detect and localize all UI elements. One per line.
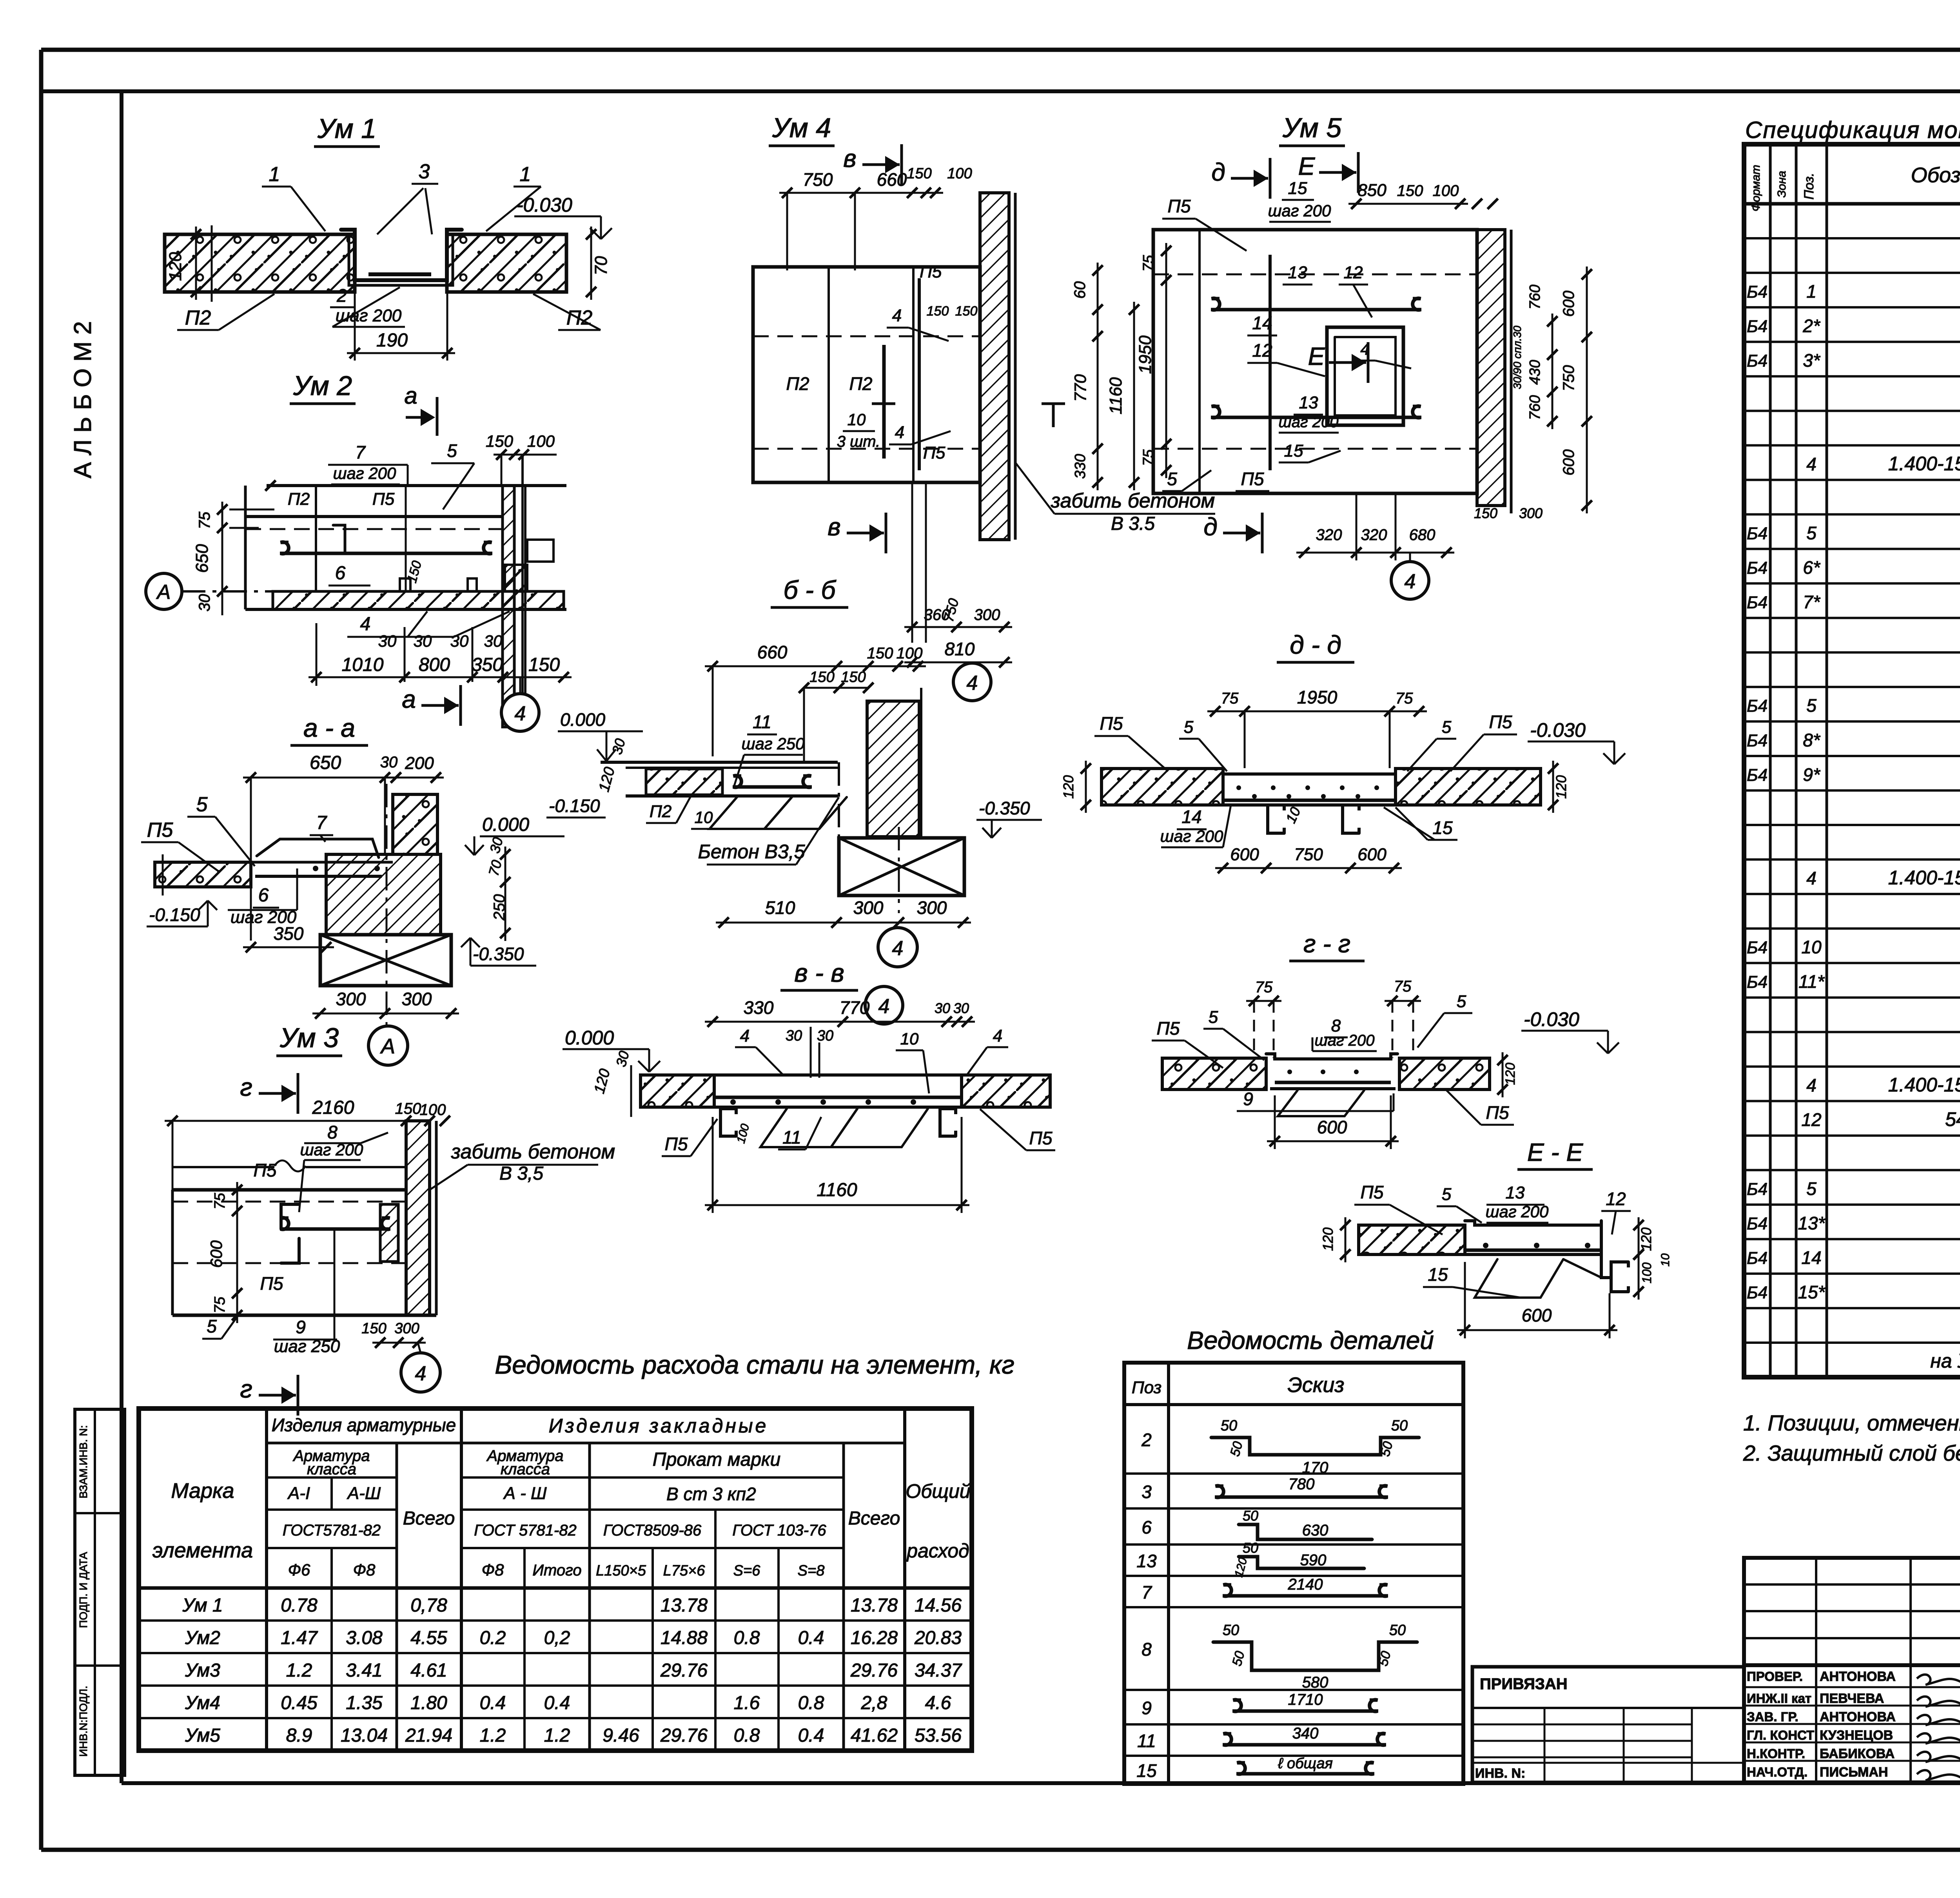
svg-text:30: 30	[935, 1000, 950, 1016]
svg-text:320: 320	[1316, 526, 1342, 544]
svg-text:Ум 3: Ум 3	[279, 1022, 339, 1053]
svg-text:430: 430	[1527, 360, 1543, 384]
svg-text:14: 14	[1801, 1247, 1821, 1268]
svg-text:0.8: 0.8	[798, 1693, 824, 1713]
svg-text:ГОСТ 103-76: ГОСТ 103-76	[732, 1522, 826, 1539]
svg-text:0.000: 0.000	[565, 1027, 614, 1049]
Um3 break squiggle top	[274, 1160, 306, 1171]
svg-text:П2: П2	[849, 373, 873, 394]
svg-text:4: 4	[1360, 340, 1369, 358]
svg-text:0.4: 0.4	[480, 1693, 506, 1713]
sketch poz2 channel 170	[1211, 1438, 1419, 1455]
Um3 section mark g top	[259, 1092, 296, 1095]
svg-text:4: 4	[1806, 454, 1817, 474]
svg-text:200: 200	[405, 754, 434, 773]
svg-text:Ум 4: Ум 4	[772, 112, 831, 143]
svg-text:30: 30	[786, 1028, 802, 1044]
svg-text:1: 1	[269, 163, 280, 186]
svg-text:4.6: 4.6	[925, 1693, 951, 1713]
Um4 bottom dims	[911, 482, 913, 643]
svg-text:150: 150	[1397, 182, 1423, 199]
svg-text:Изделия закладные: Изделия закладные	[549, 1415, 769, 1437]
svg-text:75: 75	[212, 1296, 228, 1313]
v-v circled 4	[865, 986, 903, 1024]
svg-text:П5: П5	[1157, 1018, 1180, 1039]
svg-text:300: 300	[394, 1320, 419, 1337]
Um5 circled 4	[1391, 562, 1429, 599]
svg-text:75: 75	[212, 1193, 228, 1209]
svg-text:Ум 1: Ум 1	[317, 113, 376, 144]
svg-text:1950: 1950	[1136, 335, 1155, 374]
svg-text:150: 150	[867, 645, 893, 662]
svg-text:класса: класса	[501, 1461, 550, 1478]
svg-text:2,8: 2,8	[861, 1693, 887, 1713]
Um5 right dims	[1552, 314, 1553, 429]
svg-text:А - Ш: А - Ш	[503, 1484, 547, 1503]
Um5 bottom dims	[1356, 493, 1357, 560]
svg-text:750: 750	[1294, 845, 1323, 864]
svg-text:14: 14	[1181, 807, 1201, 827]
svg-text:П2: П2	[185, 306, 211, 329]
d-d top dims	[1207, 711, 1427, 712]
svg-text:шаг 200: шаг 200	[333, 464, 396, 482]
svg-text:30: 30	[378, 632, 397, 650]
svg-text:190: 190	[376, 330, 408, 351]
svg-text:100: 100	[1640, 1262, 1654, 1283]
Um2 embedded plates	[400, 578, 410, 591]
Um2 slab band	[273, 591, 564, 609]
a-a bottom dims	[312, 1013, 459, 1015]
svg-text:Всего: Всего	[403, 1508, 455, 1529]
svg-text:0,78: 0,78	[410, 1595, 447, 1616]
svg-text:30: 30	[953, 1000, 969, 1016]
svg-text:1.6: 1.6	[734, 1693, 760, 1713]
sketch poz11 bar 340	[1223, 1743, 1386, 1747]
svg-text:Ведомость расхода стали на эле: Ведомость расхода стали на элемент, кг	[495, 1350, 1014, 1379]
svg-text:15*: 15*	[1798, 1282, 1826, 1302]
svg-text:П5: П5	[1486, 1102, 1509, 1123]
svg-text:3: 3	[419, 160, 430, 183]
Um3 inner hatched panel	[380, 1204, 398, 1262]
svg-text:13*: 13*	[1798, 1213, 1826, 1233]
Um1 channel recess	[341, 230, 462, 280]
svg-text:ГОСТ8509-86: ГОСТ8509-86	[603, 1522, 702, 1539]
svg-text:150: 150	[955, 304, 978, 319]
svg-text:600: 600	[1357, 845, 1387, 864]
svg-text:10: 10	[848, 410, 866, 429]
details list table	[1124, 1363, 1463, 1784]
Um2 section mark a bottom	[421, 704, 459, 707]
svg-text:75: 75	[196, 511, 213, 529]
svg-text:Спецификация монолитных участк: Спецификация монолитных участкоб перекры…	[1745, 117, 1960, 143]
svg-text:-0.030: -0.030	[1530, 719, 1586, 741]
svg-text:Ум 5: Ум 5	[1282, 112, 1342, 143]
svg-text:1160: 1160	[817, 1180, 857, 1200]
svg-text:3 шт.: 3 шт.	[837, 433, 880, 450]
svg-text:0.4: 0.4	[544, 1693, 570, 1713]
svg-text:150: 150	[927, 304, 949, 319]
svg-text:Е: Е	[1298, 152, 1316, 180]
svg-text:150: 150	[528, 654, 560, 675]
svg-text:ВЗАМ.ИНВ. N:: ВЗАМ.ИНВ. N:	[77, 1425, 89, 1498]
Um2 left dim chain	[221, 502, 223, 615]
svg-text:4: 4	[895, 423, 904, 442]
svg-text:50: 50	[1223, 1622, 1239, 1639]
svg-text:5: 5	[1806, 1178, 1817, 1199]
svg-text:Ум3: Ум3	[185, 1660, 220, 1681]
svg-text:590: 590	[1300, 1552, 1327, 1569]
svg-text:4: 4	[1806, 868, 1817, 888]
svg-text:11: 11	[1137, 1731, 1156, 1751]
svg-text:14: 14	[1252, 313, 1272, 333]
svg-text:29.76: 29.76	[660, 1660, 708, 1681]
svg-text:30: 30	[450, 632, 469, 650]
svg-text:0.000: 0.000	[482, 814, 529, 835]
svg-text:5: 5	[1184, 718, 1194, 737]
Um2 right bracket	[527, 540, 554, 562]
svg-text:Б4: Б4	[1747, 973, 1768, 992]
svg-text:5: 5	[1457, 992, 1466, 1011]
svg-text:забить бетоном: забить бетоном	[451, 1140, 615, 1163]
svg-text:ИНЖ.II кат: ИНЖ.II кат	[1747, 1691, 1811, 1706]
svg-text:КУЗНЕЦОВ: КУЗНЕЦОВ	[1820, 1728, 1893, 1743]
svg-text:П2: П2	[786, 373, 809, 394]
d-d channels	[1268, 805, 1284, 833]
svg-text:30: 30	[196, 594, 213, 612]
svg-text:Е - Е: Е - Е	[1527, 1138, 1584, 1166]
svg-text:Н.КОНТР.: Н.КОНТР.	[1747, 1746, 1805, 1761]
Um2 circled A and axis	[146, 573, 182, 609]
svg-text:10: 10	[1801, 937, 1822, 957]
svg-text:250: 250	[491, 894, 508, 921]
svg-text:шаг 200: шаг 200	[1268, 201, 1331, 220]
svg-text:330: 330	[744, 997, 774, 1018]
svg-text:12: 12	[1801, 1109, 1821, 1130]
svg-text:760: 760	[1527, 285, 1543, 309]
svg-text:10: 10	[900, 1030, 919, 1048]
svg-text:П5: П5	[923, 443, 946, 462]
svg-text:6*: 6*	[1803, 557, 1821, 578]
svg-text:680: 680	[1409, 526, 1436, 544]
svg-text:шаг 200: шаг 200	[300, 1140, 363, 1159]
svg-text:75: 75	[1140, 255, 1157, 272]
Um2 rebar with hooks	[280, 552, 492, 555]
svg-text:Б4: Б4	[1747, 731, 1768, 750]
Um2 section mark a top	[406, 416, 431, 419]
a-a wall upper concrete	[393, 794, 437, 854]
inner working-area frame	[120, 91, 123, 1783]
Um1 right slab	[447, 234, 566, 292]
svg-text:850: 850	[1357, 181, 1387, 200]
svg-text:Е: Е	[1308, 342, 1325, 370]
Um3 Z-bar	[281, 1204, 299, 1229]
Um1 dims	[195, 227, 197, 300]
Um5 section marks top	[1231, 177, 1268, 180]
svg-text:АНТОНОВА: АНТОНОВА	[1820, 1709, 1896, 1724]
svg-text:шаг 200: шаг 200	[1160, 827, 1223, 845]
svg-text:600: 600	[1317, 1117, 1347, 1137]
svg-text:4: 4	[1806, 1075, 1817, 1095]
svg-text:П5: П5	[372, 489, 395, 509]
svg-text:ГЛ. КОНСТ: ГЛ. КОНСТ	[1747, 1728, 1814, 1742]
Um5 body	[1153, 230, 1477, 493]
svg-text:150: 150	[907, 165, 931, 182]
svg-text:5: 5	[447, 441, 457, 461]
svg-text:ПЕВЧЕВА: ПЕВЧЕВА	[1820, 1691, 1884, 1706]
svg-text:6: 6	[335, 563, 346, 584]
svg-text:12: 12	[1252, 340, 1272, 361]
svg-text:630: 630	[1302, 1522, 1328, 1539]
svg-text:2. Защитный слой бетона - 15 м: 2. Защитный слой бетона - 15 мм.	[1743, 1441, 1960, 1465]
svg-text:75: 75	[1396, 690, 1413, 707]
Um3 left dims	[236, 1182, 238, 1323]
svg-text:1010: 1010	[342, 654, 384, 675]
specification table rows	[1744, 237, 1960, 239]
svg-text:на Ум1 ÷ Ум5: на Ум1 ÷ Ум5	[1930, 1350, 1960, 1372]
svg-text:20.83: 20.83	[914, 1628, 962, 1648]
svg-text:Зона: Зона	[1775, 171, 1788, 198]
svg-text:660: 660	[877, 169, 907, 190]
Um4 panel	[753, 267, 980, 482]
svg-text:100: 100	[1433, 182, 1459, 199]
privyazan block	[1472, 1667, 1744, 1782]
svg-text:L150×5: L150×5	[596, 1563, 646, 1579]
svg-text:9: 9	[1142, 1698, 1152, 1718]
svg-text:П5: П5	[1361, 1182, 1384, 1202]
v-v slab left	[641, 1075, 714, 1107]
g-g hatch streaks	[1278, 1090, 1364, 1116]
Um4 top dims	[779, 192, 943, 194]
svg-text:70: 70	[592, 256, 611, 275]
sketch poz7 bar 2140	[1223, 1594, 1388, 1598]
svg-text:П5: П5	[1241, 469, 1264, 489]
svg-text:1710: 1710	[1288, 1691, 1323, 1708]
Um5 left dims	[1165, 243, 1167, 478]
svg-text:8.9: 8.9	[286, 1725, 312, 1746]
svg-text:760: 760	[1527, 395, 1543, 420]
svg-text:в: в	[843, 144, 856, 172]
svg-text:14.56: 14.56	[915, 1595, 962, 1616]
svg-text:а - а: а - а	[303, 713, 355, 742]
svg-text:0.4: 0.4	[798, 1725, 824, 1746]
svg-text:14.88: 14.88	[661, 1628, 708, 1648]
d-d slab	[1102, 769, 1223, 805]
svg-text:Б4: Б4	[1747, 283, 1768, 302]
svg-text:Всего: Всего	[848, 1508, 900, 1529]
svg-text:г: г	[240, 1375, 252, 1403]
b-b top dims	[705, 665, 926, 667]
Um3 top dims	[165, 1120, 414, 1122]
svg-text:170: 170	[1302, 1459, 1328, 1476]
svg-text:5: 5	[207, 1316, 217, 1336]
svg-text:0.8: 0.8	[734, 1725, 760, 1746]
b-b hatch streak	[710, 797, 792, 829]
v-v channels	[720, 1109, 736, 1136]
b-b circled 4	[878, 928, 917, 967]
Um5 wall strip	[1477, 230, 1505, 506]
Um3 rebar	[280, 1227, 390, 1231]
svg-text:10: 10	[695, 808, 713, 827]
svg-text:б - б: б - б	[784, 575, 837, 604]
svg-text:75: 75	[1394, 978, 1412, 995]
svg-text:4: 4	[892, 306, 902, 325]
svg-text:150: 150	[841, 669, 866, 685]
svg-text:150: 150	[809, 669, 834, 685]
svg-text:4: 4	[740, 1026, 750, 1046]
svg-text:П2: П2	[650, 802, 671, 821]
svg-text:Бетон В3,5: Бетон В3,5	[698, 841, 805, 863]
svg-text:16.28: 16.28	[851, 1628, 898, 1648]
svg-text:350: 350	[472, 654, 503, 675]
svg-text:1.400-15.81. 110-05: 1.400-15.81. 110-05	[1888, 453, 1960, 475]
E-E slab	[1359, 1225, 1465, 1254]
svg-text:11*: 11*	[1798, 972, 1825, 992]
svg-text:75: 75	[1221, 690, 1239, 707]
svg-text:ЗАВ. ГР.: ЗАВ. ГР.	[1747, 1709, 1798, 1724]
Um4 section mark v bottom	[847, 532, 884, 535]
E-E dim 600	[1457, 1329, 1617, 1331]
a-a foundation cross	[320, 935, 451, 986]
svg-text:1950: 1950	[1297, 687, 1338, 707]
Um4 center rebar	[882, 345, 886, 459]
svg-text:50: 50	[1391, 1418, 1408, 1434]
sketch poz8 channel 580	[1213, 1642, 1417, 1670]
svg-text:600: 600	[1560, 291, 1577, 317]
svg-text:3: 3	[1142, 1482, 1152, 1502]
g-g dim 600	[1267, 1140, 1399, 1142]
svg-text:11: 11	[782, 1127, 801, 1148]
svg-text:13: 13	[1136, 1551, 1157, 1571]
svg-text:300: 300	[336, 989, 366, 1009]
svg-text:120: 120	[1638, 1227, 1654, 1251]
svg-text:75: 75	[1255, 979, 1273, 996]
svg-text:2140: 2140	[1288, 1576, 1323, 1593]
svg-text:7*: 7*	[1803, 592, 1821, 612]
sketch poz3 bar 780	[1215, 1496, 1388, 1499]
svg-text:шаг 250: шаг 250	[742, 734, 805, 753]
svg-text:расход: расход	[906, 1540, 969, 1562]
svg-text:8: 8	[327, 1122, 338, 1142]
Um2 circled 4	[501, 694, 539, 731]
svg-text:г - г: г - г	[1303, 930, 1350, 958]
svg-text:4: 4	[415, 1362, 426, 1385]
svg-text:А: А	[380, 1035, 395, 1058]
svg-text:в - в: в - в	[794, 958, 844, 987]
svg-text:Ф8: Ф8	[482, 1561, 504, 1579]
b-b slab	[601, 761, 838, 764]
svg-text:0,2: 0,2	[544, 1628, 570, 1648]
v-v top dims	[705, 1021, 975, 1023]
svg-text:50: 50	[1389, 1622, 1406, 1639]
svg-text:5: 5	[196, 793, 208, 816]
svg-text:0.8: 0.8	[734, 1628, 760, 1648]
svg-text:ИНВ. N:: ИНВ. N:	[1475, 1766, 1525, 1781]
svg-text:7: 7	[1142, 1582, 1152, 1603]
svg-text:4: 4	[515, 702, 526, 725]
svg-text:Б4: Б4	[1747, 938, 1768, 957]
b-b wall	[867, 701, 919, 837]
svg-text:9: 9	[296, 1317, 306, 1337]
svg-text:Ведомость деталей: Ведомость деталей	[1187, 1326, 1434, 1354]
svg-text:Поз.: Поз.	[1802, 173, 1817, 199]
svg-text:120: 120	[1060, 775, 1076, 799]
svg-text:а: а	[402, 685, 416, 713]
svg-text:750: 750	[803, 169, 833, 190]
svg-text:Обозначение: Обозначение	[1911, 163, 1960, 187]
svg-text:класса: класса	[307, 1461, 356, 1478]
Um3 wall strip	[406, 1121, 430, 1315]
svg-text:15: 15	[1428, 1264, 1448, 1285]
v-v mid slab	[714, 1073, 962, 1077]
svg-text:Общий: Общий	[906, 1480, 970, 1502]
svg-text:А-I: А-I	[287, 1484, 310, 1503]
svg-text:2*: 2*	[1802, 316, 1821, 336]
svg-text:В ст 3 кп2: В ст 3 кп2	[666, 1484, 756, 1504]
svg-text:13.78: 13.78	[851, 1595, 898, 1616]
svg-text:120: 120	[1553, 775, 1569, 799]
Um5 inner plate E	[1327, 327, 1403, 425]
svg-text:Ф8: Ф8	[353, 1561, 376, 1579]
svg-text:100: 100	[897, 645, 923, 662]
svg-text:600: 600	[1522, 1305, 1552, 1325]
svg-text:9*: 9*	[1803, 764, 1821, 785]
svg-text:4.55: 4.55	[410, 1628, 447, 1648]
svg-text:П5: П5	[1100, 713, 1123, 734]
svg-text:П5: П5	[1168, 196, 1191, 216]
Um2 wall strip	[503, 486, 514, 727]
svg-text:шаг 200: шаг 200	[1278, 413, 1338, 431]
svg-text:11: 11	[753, 712, 771, 732]
svg-text:АНТОНОВА: АНТОНОВА	[1820, 1669, 1896, 1684]
svg-text:75: 75	[1140, 449, 1157, 466]
a-a top dims	[243, 777, 444, 779]
svg-text:1.80: 1.80	[410, 1693, 447, 1713]
svg-text:120: 120	[1503, 1063, 1518, 1085]
svg-text:100: 100	[527, 432, 555, 450]
svg-text:ПРОВЕР.: ПРОВЕР.	[1747, 1669, 1803, 1684]
svg-text:2: 2	[336, 285, 347, 306]
svg-text:А: А	[156, 581, 171, 604]
svg-text:Б4: Б4	[1747, 765, 1768, 785]
svg-text:0.78: 0.78	[281, 1595, 318, 1616]
sheet outer border	[41, 48, 1960, 52]
svg-text:Изделия арматурные: Изделия арматурные	[272, 1415, 456, 1435]
svg-text:30: 30	[484, 632, 503, 650]
svg-text:П5: П5	[260, 1273, 283, 1294]
svg-text:320: 320	[1361, 526, 1387, 544]
svg-text:5: 5	[1442, 718, 1452, 737]
svg-text:10: 10	[1659, 1253, 1672, 1267]
svg-text:ИНВ.N:ПОДЛ.: ИНВ.N:ПОДЛ.	[77, 1686, 89, 1757]
svg-text:П2: П2	[288, 489, 310, 509]
svg-text:7: 7	[316, 812, 328, 833]
svg-text:340: 340	[1292, 1725, 1319, 1742]
svg-text:П5: П5	[920, 262, 942, 281]
Um1 left slab	[165, 234, 355, 292]
v-v slab right	[962, 1075, 1050, 1107]
svg-text:330: 330	[1072, 454, 1089, 479]
svg-text:д: д	[1203, 513, 1217, 541]
svg-text:Ум2: Ум2	[185, 1628, 220, 1648]
svg-text:4: 4	[360, 614, 371, 634]
svg-text:300: 300	[1519, 505, 1543, 521]
svg-text:П5: П5	[147, 819, 174, 841]
svg-text:30: 30	[380, 754, 398, 771]
svg-text:5: 5	[1806, 695, 1817, 716]
svg-text:ПОДП. И ДАТА: ПОДП. И ДАТА	[77, 1552, 89, 1628]
Um4 right dims	[1097, 263, 1099, 344]
svg-text:Ум 2: Ум 2	[293, 370, 352, 401]
